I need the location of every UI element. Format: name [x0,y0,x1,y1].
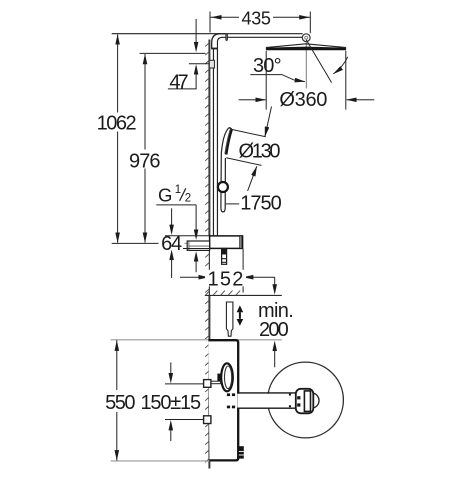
svg-text:200: 200 [259,319,289,341]
double arrow [237,305,244,325]
label G 1/2 [156,184,196,272]
dim 1062 [95,35,139,243]
svg-text:30°: 30° [253,55,282,77]
thermostat body [208,340,238,460]
insert arrow (outline) [226,302,233,336]
svg-text:47: 47 [169,71,188,93]
glide knob [218,182,228,192]
svg-text:550: 550 [105,392,135,414]
ball joint [302,34,310,42]
head centerline [305,42,307,89]
svg-text:1750: 1750 [240,193,281,215]
hose nipple under shelf [221,249,227,265]
wall (upper section) [208,40,210,296]
lower bracket [210,381,221,384]
dim 435 [210,9,310,34]
knob stem [217,374,221,382]
dim 64 [160,208,210,278]
550 top extension / min200 bottom ref [111,339,282,341]
svg-text:976: 976 [129,151,161,173]
outlet pipe [237,393,295,408]
rail wall bracket [209,60,214,68]
wall hatching (upper) [205,42,209,292]
dim 976 [126,53,206,242]
dim 152 [180,249,275,293]
30 deg label [250,55,304,82]
bottom outlet stub [239,446,244,458]
svg-text:Ø360: Ø360 [279,89,327,111]
dim Ø360 [239,51,375,111]
wall hatching (lower) [205,300,209,462]
pipe ticks [227,393,235,408]
dim Ø130 [226,107,280,191]
svg-text:64: 64 [161,233,182,255]
min.200 top reference line with hatch band [205,294,282,296]
shower head [266,44,346,51]
dim min.200 [255,277,295,367]
30 deg arc arrow [333,57,347,74]
svg-text:152: 152 [207,269,243,291]
label 1750 [226,193,282,215]
dim 47 [168,19,209,93]
dim 550 [102,340,139,460]
riser rail [213,49,217,236]
svg-text:1062: 1062 [97,112,137,134]
svg-text:435: 435 [241,9,271,29]
30 deg tilt line [306,40,331,83]
hand shower [221,128,232,212]
svg-text:1: 1 [175,184,181,196]
shared bottom extension line (supply centerline) [112,242,213,244]
elbow [211,34,227,49]
knob dial (side view) [221,363,233,391]
wall (lower section) [208,295,210,468]
dim 150±15 [141,362,204,441]
svg-text:150±15: 150±15 [141,392,202,414]
svg-text:2: 2 [185,193,191,205]
shower arm [112,34,303,38]
supply unions [204,380,211,388]
svg-text:G: G [158,185,172,206]
svg-text:Ø130: Ø130 [239,141,281,163]
concealed body circle [268,362,344,438]
550 bottom extension [111,460,236,462]
wall union flange [296,389,319,414]
supply stub behind wall [187,241,209,250]
shelf assembly [210,236,243,249]
